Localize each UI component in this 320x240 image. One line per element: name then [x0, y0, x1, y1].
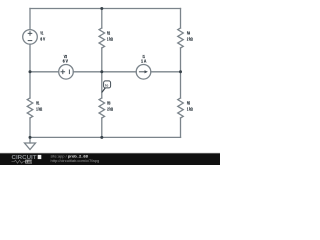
svg-text:2 kΩ: 2 kΩ: [187, 36, 193, 41]
wire middle horizontal V2 to I1: [73, 71, 136, 73]
wire right branch R5 to bottom: [180, 118, 182, 137]
I1 arrow head: [145, 70, 148, 73]
wire right branch R4 to middle: [180, 48, 182, 72]
junction node top middle: [100, 7, 103, 10]
svg-text:V1: V1: [40, 31, 43, 36]
ground triangle: [25, 143, 36, 150]
svg-text:LAB: LAB: [26, 160, 34, 164]
junction node middle right: [179, 70, 182, 73]
junction node bottom middle: [100, 136, 103, 139]
svg-text:R1: R1: [36, 101, 39, 106]
junction node bottom left: [29, 136, 32, 139]
V2 plus sign: [61, 70, 65, 74]
voltage source V2 circle: [59, 65, 74, 80]
svg-text:6 V: 6 V: [63, 59, 68, 64]
wire right branch middle to R5: [180, 72, 182, 98]
junction node middle center: [100, 70, 103, 73]
current source I1 circle: [136, 65, 151, 80]
svg-text:1 kΩ: 1 kΩ: [107, 36, 113, 41]
svg-text:R3: R3: [107, 101, 110, 106]
svg-text:1 kΩ: 1 kΩ: [36, 106, 42, 111]
resistor R2: [99, 28, 105, 48]
ground stub: [29, 137, 31, 143]
V1 plus sign: [28, 32, 32, 36]
wire left branch top (V1 to top wire): [29, 9, 31, 30]
resistor R4: [178, 28, 184, 48]
wire middle branch R2 to middle: [101, 48, 103, 72]
wire middle horizontal right of I1: [151, 71, 181, 73]
footer bar: [0, 153, 220, 165]
resistor R3: [99, 98, 105, 118]
label Io flag box: [104, 81, 111, 88]
footer logo white block: [38, 155, 42, 159]
resistor R5: [178, 98, 184, 118]
V1 minus sign: [28, 40, 32, 42]
footer logo LAB box: [25, 160, 32, 164]
wire top horizontal: [30, 8, 181, 10]
voltage source V1 circle: [23, 30, 38, 45]
svg-text:R5: R5: [187, 101, 190, 106]
wire left branch middle to R1: [29, 72, 31, 98]
wire right branch top to R4: [180, 9, 182, 29]
junction node middle left: [29, 70, 32, 73]
svg-text:1 A: 1 A: [141, 59, 147, 64]
footer logo zigzag: [12, 160, 26, 163]
svg-text:2 kΩ: 2 kΩ: [107, 106, 113, 111]
resistor R1: [27, 98, 33, 118]
wire left branch R1 to bottom: [29, 118, 31, 137]
wire middle branch top to R2: [101, 9, 103, 29]
label Io flag tail: [101, 88, 106, 93]
svg-text:6 V: 6 V: [40, 36, 45, 41]
svg-text:http://circuitlab.com/c/7fapg: http://circuitlab.com/c/7fapg: [51, 158, 100, 163]
V2 minus sign (vertical bar): [68, 70, 70, 74]
wire bottom horizontal: [30, 136, 181, 138]
wire middle branch R3 to bottom: [101, 118, 103, 137]
svg-text:1 kΩ: 1 kΩ: [187, 106, 193, 111]
svg-text:R4: R4: [187, 31, 190, 36]
svg-text:R2: R2: [107, 31, 110, 36]
I1 arrow shaft: [139, 71, 145, 73]
wire left branch V1 to middle: [29, 44, 31, 72]
wire middle horizontal left of V2: [30, 71, 59, 73]
wire middle branch middle to R3: [101, 72, 103, 98]
